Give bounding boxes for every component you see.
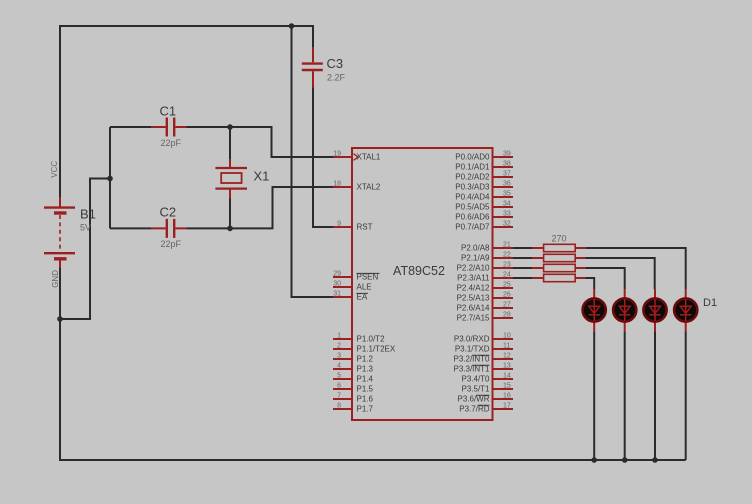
svg-text:P1.6: P1.6 <box>357 395 374 404</box>
svg-text:P1.1/T2EX: P1.1/T2EX <box>357 345 396 354</box>
svg-text:P2.1/A9: P2.1/A9 <box>461 254 490 263</box>
svg-text:P3.2/INT0: P3.2/INT0 <box>453 355 490 364</box>
svg-text:12: 12 <box>503 353 511 360</box>
svg-text:2: 2 <box>337 343 341 350</box>
svg-text:P3.0/RXD: P3.0/RXD <box>454 335 490 344</box>
svg-text:EA: EA <box>357 293 368 302</box>
svg-text:3: 3 <box>337 353 341 360</box>
svg-text:28: 28 <box>503 312 511 319</box>
svg-text:25: 25 <box>503 282 511 289</box>
svg-text:C1: C1 <box>160 103 177 118</box>
svg-text:RST: RST <box>357 223 373 232</box>
svg-text:P0.3/AD3: P0.3/AD3 <box>455 183 490 192</box>
svg-text:38: 38 <box>503 161 511 168</box>
svg-text:15: 15 <box>503 383 511 390</box>
svg-text:22pF: 22pF <box>161 138 182 148</box>
svg-text:XTAL2: XTAL2 <box>357 183 381 192</box>
svg-text:30: 30 <box>333 281 341 288</box>
svg-text:P2.7/A15: P2.7/A15 <box>457 314 490 323</box>
svg-text:P0.6/AD6: P0.6/AD6 <box>455 213 490 222</box>
svg-text:7: 7 <box>337 393 341 400</box>
svg-text:16: 16 <box>503 393 511 400</box>
svg-text:XTAL1: XTAL1 <box>357 153 381 162</box>
svg-text:P1.4: P1.4 <box>357 375 374 384</box>
svg-text:P0.7/AD7: P0.7/AD7 <box>455 223 490 232</box>
svg-text:1: 1 <box>337 333 341 340</box>
svg-text:39: 39 <box>503 151 511 158</box>
svg-text:29: 29 <box>333 271 341 278</box>
svg-text:C3: C3 <box>327 56 344 71</box>
svg-text:P0.5/AD5: P0.5/AD5 <box>455 203 490 212</box>
svg-text:36: 36 <box>503 181 511 188</box>
svg-text:ALE: ALE <box>357 283 372 292</box>
svg-text:P0.0/AD0: P0.0/AD0 <box>455 153 490 162</box>
svg-text:P1.3: P1.3 <box>357 365 374 374</box>
svg-text:22pF: 22pF <box>161 239 182 249</box>
svg-text:C2: C2 <box>160 205 177 220</box>
svg-text:X1: X1 <box>254 168 270 183</box>
svg-text:B1: B1 <box>80 207 96 222</box>
svg-text:P0.1/AD1: P0.1/AD1 <box>455 163 490 172</box>
svg-text:8: 8 <box>337 403 341 410</box>
svg-text:P3.4/T0: P3.4/T0 <box>461 375 490 384</box>
svg-text:5: 5 <box>337 373 341 380</box>
svg-text:P2.5/A13: P2.5/A13 <box>457 294 490 303</box>
svg-text:P1.2: P1.2 <box>357 355 374 364</box>
svg-text:14: 14 <box>503 373 511 380</box>
svg-text:10: 10 <box>503 333 511 340</box>
svg-text:P3.7/RD: P3.7/RD <box>459 405 489 414</box>
svg-text:P0.2/AD2: P0.2/AD2 <box>455 173 490 182</box>
svg-text:PSEN: PSEN <box>357 273 379 282</box>
svg-text:P2.2/A10: P2.2/A10 <box>457 264 490 273</box>
svg-text:2.2F: 2.2F <box>327 73 346 83</box>
svg-text:P2.0/A8: P2.0/A8 <box>461 244 490 253</box>
svg-text:P3.5/T1: P3.5/T1 <box>461 385 490 394</box>
svg-text:P1.5: P1.5 <box>357 385 374 394</box>
svg-text:GND: GND <box>51 270 60 288</box>
svg-text:13: 13 <box>503 363 511 370</box>
svg-text:P2.6/A14: P2.6/A14 <box>457 304 490 313</box>
svg-text:P3.1/TXD: P3.1/TXD <box>455 345 490 354</box>
svg-text:D1: D1 <box>703 297 717 309</box>
svg-text:23: 23 <box>503 262 511 269</box>
svg-text:4: 4 <box>337 363 341 370</box>
svg-text:24: 24 <box>503 272 511 279</box>
svg-text:270: 270 <box>552 234 567 244</box>
svg-text:37: 37 <box>503 171 511 178</box>
svg-text:P2.4/A12: P2.4/A12 <box>457 284 490 293</box>
svg-text:P0.4/AD4: P0.4/AD4 <box>455 193 490 202</box>
svg-text:17: 17 <box>503 403 511 410</box>
svg-text:P3.6/WR: P3.6/WR <box>457 395 489 404</box>
svg-text:27: 27 <box>503 302 511 309</box>
svg-text:22: 22 <box>503 252 511 259</box>
svg-text:11: 11 <box>503 343 510 350</box>
svg-text:35: 35 <box>503 191 511 198</box>
svg-text:19: 19 <box>333 151 341 158</box>
svg-text:6: 6 <box>337 383 341 390</box>
svg-text:32: 32 <box>503 221 511 228</box>
svg-text:21: 21 <box>503 242 511 249</box>
svg-text:33: 33 <box>503 211 511 218</box>
svg-text:9: 9 <box>337 221 341 228</box>
svg-text:P1.7: P1.7 <box>357 405 374 414</box>
svg-text:18: 18 <box>333 181 341 188</box>
svg-text:VCC: VCC <box>50 161 59 178</box>
svg-text:P2.3/A11: P2.3/A11 <box>457 274 490 283</box>
svg-text:31: 31 <box>333 291 341 298</box>
svg-text:P3.3/INT1: P3.3/INT1 <box>453 365 490 374</box>
svg-text:P1.0/T2: P1.0/T2 <box>357 335 386 344</box>
svg-text:5V: 5V <box>80 223 91 233</box>
svg-text:AT89C52: AT89C52 <box>393 264 445 278</box>
svg-text:34: 34 <box>503 201 511 208</box>
svg-text:26: 26 <box>503 292 511 299</box>
